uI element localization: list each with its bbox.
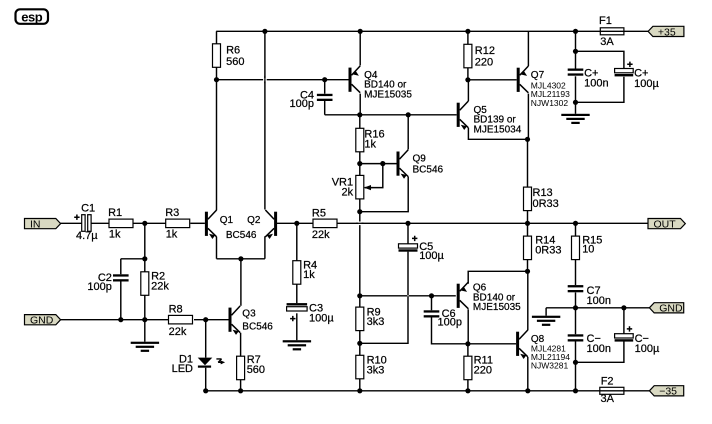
svg-text:Q9: Q9 xyxy=(413,153,427,164)
wire Q3 emitter to R7 xyxy=(240,333,242,356)
svg-text:3k3: 3k3 xyxy=(367,316,385,328)
node C+ bottom/ground xyxy=(573,100,578,105)
wire gnd symbol stub right xyxy=(545,308,547,316)
svg-text:LED: LED xyxy=(172,363,193,375)
svg-text:100p: 100p xyxy=(438,317,462,329)
svg-text:BC546: BC546 xyxy=(413,165,444,176)
ESP logo xyxy=(16,9,49,24)
resistor R13 xyxy=(524,187,532,211)
node Q2 base/R4/R5 xyxy=(294,221,299,226)
node rail/Q2 collector xyxy=(262,29,267,34)
svg-text:R8: R8 xyxy=(169,303,183,315)
svg-text:0R33: 0R33 xyxy=(533,198,559,210)
transistor Q8 xyxy=(516,332,519,356)
wire tail down to Q3 collector xyxy=(240,259,242,306)
capacitor C3 xyxy=(287,303,308,305)
wire C+ link line xyxy=(576,51,624,68)
capacitor C4 xyxy=(317,94,333,96)
wire C+100u bottom elbow xyxy=(576,77,624,103)
tag OUT xyxy=(648,219,685,229)
wire node A line Q4.col to Q5.base xyxy=(360,114,457,116)
svg-text:3A: 3A xyxy=(601,393,615,405)
svg-text:OUT: OUT xyxy=(654,219,677,231)
wire C+ branch from rail xyxy=(575,31,577,68)
svg-text:100µ: 100µ xyxy=(309,313,334,325)
svg-text:MJE15035: MJE15035 xyxy=(364,90,412,101)
wire output line xyxy=(337,222,648,224)
capacitor C+ 100n xyxy=(568,69,584,71)
svg-text:0R33: 0R33 xyxy=(535,244,561,256)
svg-text:220: 220 xyxy=(474,364,492,376)
ground (input) xyxy=(131,342,159,344)
resistor R6 xyxy=(213,44,221,68)
node X R12/Q5c/Q7b xyxy=(465,77,470,82)
node gnd C-100u xyxy=(621,305,626,310)
svg-text:Q1: Q1 xyxy=(220,215,234,226)
svg-text:R6: R6 xyxy=(226,45,240,57)
svg-text:22k: 22k xyxy=(151,281,169,293)
wire VR1 bottom / bias column xyxy=(359,199,361,307)
node Y Q6c/C6/R11/Q8b xyxy=(465,341,470,346)
wire R15 to C7 xyxy=(575,260,577,286)
wire R15 top xyxy=(575,223,577,236)
wire R13 leads xyxy=(527,139,529,223)
svg-text:22k: 22k xyxy=(169,326,187,338)
transistor Q7 xyxy=(517,68,520,92)
wire R1 to R3 xyxy=(133,222,166,224)
fuse F1 xyxy=(600,28,624,35)
resistor R8 xyxy=(169,315,193,324)
node R6/Q1 collector xyxy=(214,77,219,82)
node R16/VR1/Q9 base xyxy=(357,161,362,166)
transistor Q5 xyxy=(457,103,460,127)
wire D1 cathode to rail xyxy=(205,368,207,391)
wire C+ ground stub xyxy=(575,102,577,114)
resistor R1 xyxy=(109,219,133,228)
svg-text:F2: F2 xyxy=(601,376,614,388)
node VR1 bottom/Q9 emitter xyxy=(357,209,362,214)
ground (C3) xyxy=(283,340,311,342)
wire node Y to Q8 base xyxy=(468,343,516,345)
resistor R2 xyxy=(141,272,149,296)
wire Q9 base xyxy=(360,163,397,165)
trimpot VR1 xyxy=(356,175,364,199)
wire Q8 emitter to rail xyxy=(527,357,529,391)
wire crossover C5/node-B line xyxy=(407,295,408,296)
wire ground stub left xyxy=(144,320,146,342)
wire Q6 emitter elbow xyxy=(468,271,527,283)
svg-text:Q3: Q3 xyxy=(242,308,256,319)
wire Q9 emitter elbow xyxy=(360,177,408,212)
svg-text:1k: 1k xyxy=(303,269,315,281)
svg-text:MJE15034: MJE15034 xyxy=(474,124,522,135)
svg-text:C1: C1 xyxy=(81,203,95,215)
svg-text:−35: −35 xyxy=(659,386,677,398)
svg-text:100n: 100n xyxy=(584,77,608,89)
tag IN xyxy=(25,219,61,229)
svg-text:IN: IN xyxy=(30,219,41,231)
node rail/R12 xyxy=(465,29,470,34)
svg-text:100µ: 100µ xyxy=(635,343,660,355)
svg-text:2k: 2k xyxy=(341,186,353,198)
svg-text:GND: GND xyxy=(659,303,683,315)
wire R6 junction to Q4 base xyxy=(217,79,349,81)
svg-text:560: 560 xyxy=(226,56,244,68)
node C4 top xyxy=(322,77,327,82)
wire R3 to Q1 base xyxy=(190,222,205,224)
wire R16 to VR1 xyxy=(359,152,361,176)
transistor Q2 xyxy=(274,212,277,236)
svg-text:MJE15035: MJE15035 xyxy=(473,302,521,313)
node B bias/Q6 base/R9 xyxy=(357,293,362,298)
wire node X to Q7 base xyxy=(468,79,517,81)
svg-text:F1: F1 xyxy=(599,15,612,27)
node R15 top xyxy=(573,221,578,226)
wire C6 branch xyxy=(432,296,468,344)
wire gnd node to GND tag xyxy=(624,307,650,309)
capacitor C6 xyxy=(424,310,440,312)
wire Q8 collector up xyxy=(527,271,529,330)
wire C+100n bottom xyxy=(575,76,577,102)
wire Q2 base to R5 xyxy=(276,222,313,224)
svg-text:+35: +35 xyxy=(658,26,676,38)
wire top rail drop to R6 xyxy=(216,31,218,44)
wire gnd node line xyxy=(546,307,624,309)
wire C7 to gnd node xyxy=(575,293,577,308)
node A Q4 collector xyxy=(357,112,362,117)
fuse F2 xyxy=(600,387,624,394)
resistor R10 xyxy=(356,355,364,379)
resistor R3 xyxy=(166,219,190,228)
node gnd C7/C-100n xyxy=(573,305,578,310)
node rail R10 xyxy=(357,388,362,393)
wire Q7 emitter to rail xyxy=(527,31,529,66)
node output R13/R14 xyxy=(525,221,530,226)
wire C2/R2 top link xyxy=(121,258,145,260)
svg-text:3A: 3A xyxy=(600,36,614,48)
wire R9/R10 junction stub xyxy=(359,331,361,356)
transistor Q6 xyxy=(457,284,460,308)
wire Q5 emitter elbow xyxy=(468,128,527,139)
capacitor C+ 100u xyxy=(615,69,634,73)
svg-text:22k: 22k xyxy=(312,229,330,241)
svg-text:100n: 100n xyxy=(587,295,611,307)
wire Q4 emitter to rail xyxy=(359,31,361,65)
svg-text:BC546: BC546 xyxy=(242,321,273,332)
svg-text:esp: esp xyxy=(21,9,42,24)
capacitor C1 xyxy=(82,215,85,232)
wire emitter link Q1-Q2 xyxy=(217,236,265,258)
resistor R4 xyxy=(293,261,301,285)
node rail Q8 emitter xyxy=(525,388,530,393)
svg-text:R13: R13 xyxy=(533,187,553,199)
node A Q9 collector xyxy=(406,112,411,117)
wire Q2 collector up xyxy=(264,31,266,209)
wire R10 to rail xyxy=(359,379,361,391)
node rail R7 xyxy=(238,388,243,393)
wire input line IN to C1 xyxy=(61,222,82,224)
wire C-100n leads xyxy=(575,308,577,363)
svg-text:560: 560 xyxy=(247,364,265,376)
svg-text:R3: R3 xyxy=(165,207,179,219)
node Q5e/Q7c/R13 xyxy=(525,137,530,142)
node C2/R2 top xyxy=(142,256,147,261)
svg-text:10: 10 xyxy=(582,244,594,256)
wire GND line xyxy=(61,319,169,321)
wire R4 branch xyxy=(296,223,298,303)
svg-text:1k: 1k xyxy=(364,138,376,150)
wire C1 to R1 xyxy=(91,222,109,224)
svg-text:100µ: 100µ xyxy=(634,78,659,90)
wire R11 leads xyxy=(467,344,469,391)
svg-text:NJW3281: NJW3281 xyxy=(531,361,569,371)
svg-text:100µ: 100µ xyxy=(419,250,444,262)
wire +35 top rail xyxy=(216,30,648,32)
wire node B line to Q6 base xyxy=(360,295,456,297)
wire C-100u top xyxy=(623,308,625,334)
wire VR1 wiper tap xyxy=(365,164,383,188)
wire C4 branch xyxy=(324,80,326,115)
capacitor C5 xyxy=(399,244,418,248)
node input R1/R3 xyxy=(142,221,147,226)
resistor R11 xyxy=(464,356,472,380)
wire Q6 collector down xyxy=(467,309,469,344)
resistor R15 xyxy=(572,236,580,259)
capacitor C7 xyxy=(568,285,584,287)
svg-text:R5: R5 xyxy=(312,208,326,220)
wire R8 to D1 node to Q3 base xyxy=(194,319,229,321)
node C6 top xyxy=(429,293,434,298)
svg-text:1k: 1k xyxy=(166,229,178,241)
wire crossover bias column/output line xyxy=(358,222,362,226)
ground (output zobel) xyxy=(532,316,560,318)
node rail R11 xyxy=(465,388,470,393)
tag +35 xyxy=(648,26,684,36)
svg-text:100n: 100n xyxy=(587,343,611,355)
svg-text:NJW1302: NJW1302 xyxy=(531,98,569,108)
wire C- to -35 rail xyxy=(575,362,577,391)
transistor Q9 xyxy=(397,152,400,176)
svg-text:220: 220 xyxy=(475,56,493,68)
node rail C- branch xyxy=(573,388,578,393)
wire C-100u bottom elbow xyxy=(576,342,624,363)
node bootstrap R9/R10 xyxy=(357,341,362,346)
tag GND output xyxy=(649,303,683,313)
node diff emitters xyxy=(238,256,243,261)
node C5 top xyxy=(405,221,410,226)
resistor R14 xyxy=(524,236,532,259)
tag -35 xyxy=(649,386,683,396)
capacitor C2 xyxy=(113,274,129,276)
ground (supply +) xyxy=(561,114,589,116)
wire C2 branch xyxy=(120,259,122,320)
svg-text:BC546: BC546 xyxy=(226,230,257,241)
svg-text:Q2: Q2 xyxy=(247,215,261,226)
tag GND input xyxy=(25,315,61,325)
resistor R9 xyxy=(356,307,364,331)
node VR1 wiper tap xyxy=(380,161,385,166)
wire R12 bottom to node X xyxy=(467,68,469,80)
wire C5 branch xyxy=(407,223,409,244)
resistor R12 xyxy=(464,44,472,68)
transistor Q3 xyxy=(229,308,232,332)
svg-text:3k3: 3k3 xyxy=(367,364,385,376)
svg-text:R12: R12 xyxy=(475,45,495,57)
wire Q5 collector up xyxy=(467,80,469,101)
node C2 bottom xyxy=(118,317,123,322)
wire feedback node down xyxy=(144,223,146,258)
svg-text:R1: R1 xyxy=(108,207,122,219)
wire R16 top xyxy=(359,115,361,129)
wire Q4 collector down xyxy=(359,94,361,115)
LED D1 xyxy=(198,358,213,366)
wire C3 to ground xyxy=(296,313,298,340)
node rail/Q4 emitter xyxy=(358,29,363,34)
wire Q9 collector up xyxy=(407,115,409,150)
node R8/D1/Q3 base xyxy=(203,317,208,322)
resistor R16 xyxy=(356,128,364,152)
svg-text:4.7µ: 4.7µ xyxy=(76,230,98,242)
node C+ top xyxy=(573,49,578,54)
resistor R7 xyxy=(237,356,245,380)
wire C4/Q4col line xyxy=(325,114,360,116)
transistor Q4 xyxy=(349,68,352,92)
wire bottom rail xyxy=(206,390,600,392)
wire C5 bootstrap down xyxy=(360,252,408,344)
wire bottom rail after F2 xyxy=(624,390,650,392)
wire R2 leads xyxy=(144,259,146,320)
wire Q7 collector down xyxy=(527,94,529,140)
node C- bottom xyxy=(573,360,578,365)
svg-text:100p: 100p xyxy=(290,98,314,110)
svg-text:GND: GND xyxy=(30,315,54,327)
capacitor C- 100n xyxy=(568,334,584,336)
resistor R5 xyxy=(313,219,337,228)
node R14/Q6e/Q8c xyxy=(525,269,530,274)
svg-text:1k: 1k xyxy=(109,229,121,241)
node rail D1 xyxy=(203,388,208,393)
wire Q1 collector / R6 branch xyxy=(216,67,218,210)
node R2 bottom/ground xyxy=(142,317,147,322)
wire R14 leads xyxy=(527,223,529,271)
wire D1 anode xyxy=(205,320,207,358)
capacitor C- 100u xyxy=(615,334,634,338)
wire R12 top xyxy=(467,31,469,44)
transistor Q1 xyxy=(205,212,208,236)
wire R7 to rail xyxy=(240,380,242,391)
svg-text:100p: 100p xyxy=(87,281,111,293)
node rail/C+ branch xyxy=(573,29,578,34)
wire crossover Q2col/R6-Q4 line xyxy=(263,78,267,81)
